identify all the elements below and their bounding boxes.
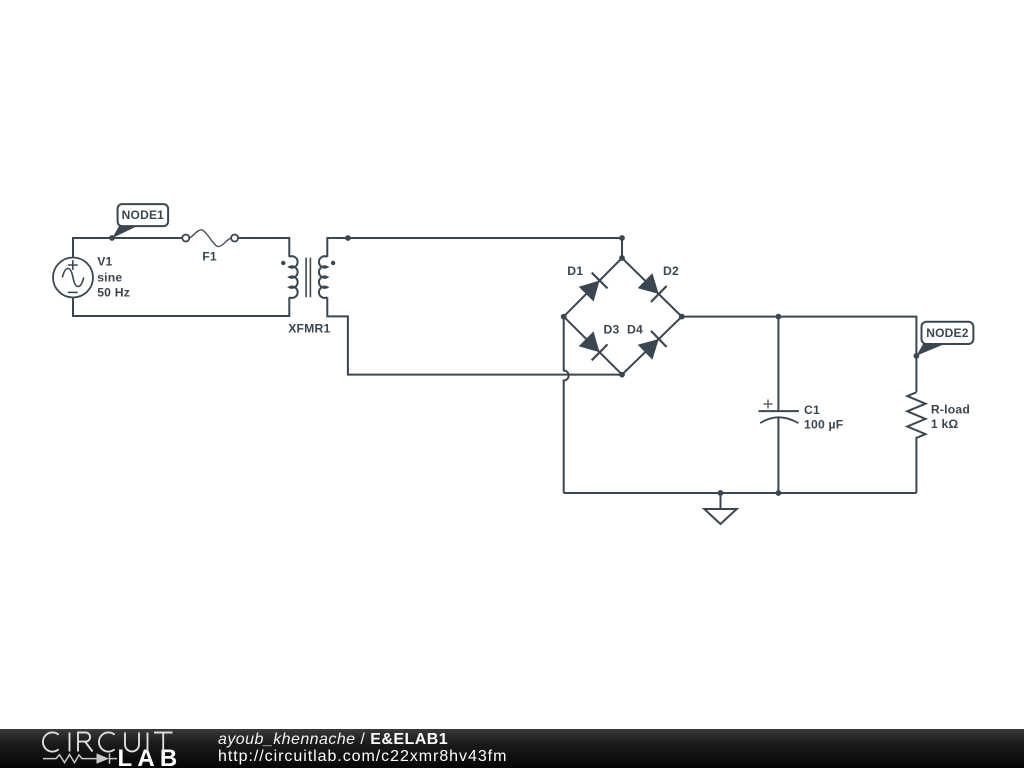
flag NODE2 [916,322,973,356]
diode D4 [638,331,667,360]
wire transformer primary bottom to V1 [73,297,289,316]
logo CIRCUIT lettering [0,729,220,768]
wire bridge edge top-right [622,258,682,317]
junction dot bridge left vertex [561,314,567,320]
svg-text:XFMR1: XFMR1 [288,322,330,336]
svg-text:D4: D4 [627,323,643,337]
diode D2 [638,273,667,302]
logo LAB [118,745,183,773]
svg-text:R-load: R-load [931,403,970,417]
node A dot (NODE1 attach) [109,235,115,241]
svg-text:V1: V1 [97,255,112,269]
ground [704,493,736,524]
credit line [218,731,448,749]
wire secondary bottom to bridge bottom vertex [327,297,622,374]
svg-text:1 kΩ: 1 kΩ [931,417,959,431]
junction dot bridge right vertex [679,314,685,320]
junction dot capacitor bottom [776,490,782,496]
svg-text:D1: D1 [567,264,583,278]
voltage source V1 [53,258,93,298]
wire bridge left vertex down with hop [564,317,569,493]
svg-text:C1: C1 [804,403,820,417]
capacitor C1 [759,317,799,493]
wire fuse to transformer primary [238,238,289,257]
logo squiggle [43,753,117,763]
wire secondary top to bridge [327,238,622,257]
resistor R-load [907,392,925,493]
diode D3 [579,331,608,360]
junction dot bridge bottom vertex [619,372,625,378]
labels [97,208,970,431]
svg-text:D3: D3 [604,323,620,337]
transformer XFMR1 [281,256,335,298]
svg-text:NODE1: NODE1 [122,208,164,222]
svg-text:D2: D2 [663,264,679,278]
wire bridge edge bottom-right [622,317,682,375]
wire bridge edge top-left [564,258,622,317]
junction dot bridge top vertex [619,255,625,261]
flag NODE1 [112,204,168,238]
fuse F1 [182,230,238,247]
svg-text:NODE2: NODE2 [926,326,968,340]
junction dot secondary top [345,235,351,241]
junction dot ground [718,490,724,496]
svg-text:100 µF: 100 µF [804,417,843,431]
diode D1 [579,273,608,302]
bottom rail wire [564,492,917,494]
junction dot bridge top feed [619,235,625,241]
svg-text:sine: sine [97,271,122,285]
footer bar [0,729,1024,768]
svg-text:50 Hz: 50 Hz [97,286,130,300]
wire V1 top to fuse [73,238,182,258]
wire bridge right vertex to load [682,317,917,393]
junction dot capacitor top [776,314,782,320]
url line [218,748,507,766]
wire bridge edge bottom-left [564,317,622,375]
node NODE2 dot [914,353,920,359]
wire down to bridge top vertex [621,238,623,258]
svg-text:F1: F1 [202,250,217,264]
